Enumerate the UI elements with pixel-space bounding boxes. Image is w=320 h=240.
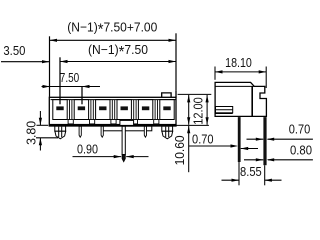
extension line 3.80 top bbox=[37, 124, 49, 126]
left peg bbox=[55, 126, 66, 139]
svg-text:8.55: 8.55 bbox=[240, 164, 262, 179]
dim line 3.80 lower bbox=[39, 138, 41, 151]
dim line (N-1)*7.50 bbox=[60, 61, 176, 63]
dim 12.00 right arrow line bbox=[206, 95, 208, 125]
svg-text:18.10: 18.10 bbox=[225, 55, 252, 70]
side right pin bbox=[263, 117, 266, 165]
dim 12.00 left arrow line bbox=[188, 95, 190, 125]
svg-text:0.90: 0.90 bbox=[77, 141, 98, 156]
extension line left pin bbox=[238, 162, 240, 185]
side left pin bbox=[238, 117, 241, 162]
svg-text:10.60: 10.60 bbox=[172, 135, 187, 165]
leader line 3.50 bbox=[1, 61, 50, 63]
extension line 18.10 right bbox=[265, 67, 267, 89]
window feet bbox=[68, 120, 159, 124]
center block under body bbox=[102, 126, 152, 131]
extension line body top right bbox=[178, 93, 212, 95]
short pin 3 bbox=[101, 126, 103, 137]
dim line (N-1)*7.50+7.00 bbox=[50, 39, 177, 41]
dim line 10.60 bbox=[188, 126, 190, 172]
right peg bbox=[162, 126, 173, 139]
dim line 0.70 front bbox=[189, 145, 237, 147]
dim line 0.80 bbox=[268, 159, 313, 161]
extension line right pin bbox=[264, 165, 266, 185]
dim line 8.55 bbox=[222, 179, 240, 181]
svg-text:12.00: 12.00 bbox=[191, 97, 206, 125]
extension line second contact bbox=[81, 87, 83, 105]
short pin 2 bbox=[79, 126, 81, 137]
side top inner line bbox=[215, 85, 254, 87]
center key rect bbox=[120, 120, 134, 125]
extension line body bottom right bbox=[177, 124, 209, 126]
body top inner line bbox=[51, 99, 176, 101]
separator walls bbox=[70, 100, 158, 124]
svg-text:3.80: 3.80 bbox=[24, 121, 39, 145]
dim line 3.80 upper bbox=[39, 111, 41, 125]
dim line 0.90 bbox=[73, 156, 122, 158]
body bottom band bbox=[49, 124, 176, 126]
body outline front view bbox=[49, 97, 176, 126]
dim line 0.70 side bbox=[268, 138, 313, 140]
side drawer bbox=[216, 107, 233, 114]
svg-text:3.50: 3.50 bbox=[3, 43, 25, 58]
contact dashes bbox=[56, 106, 170, 110]
side body outline bbox=[215, 82, 266, 116]
svg-text:0.80: 0.80 bbox=[290, 143, 312, 158]
svg-text:7.50: 7.50 bbox=[60, 70, 80, 85]
side divider bbox=[251, 86, 253, 116]
extension line body right edge bbox=[175, 33, 177, 91]
svg-text:0.70: 0.70 bbox=[289, 122, 311, 137]
body right raised tab bbox=[162, 93, 171, 98]
dim line 7.50 bbox=[42, 86, 101, 88]
svg-text:0.70: 0.70 bbox=[192, 132, 214, 147]
long pin 4 bbox=[122, 126, 125, 154]
extension line first contact bbox=[59, 57, 61, 104]
extension line body left edge bbox=[49, 36, 51, 97]
dim line 18.10 bbox=[215, 71, 266, 73]
extension line 18.10 left bbox=[214, 67, 216, 80]
contact windows bbox=[53, 100, 174, 120]
short pin 5 bbox=[144, 126, 146, 137]
extension line 3.80 bottom (peg tip) bbox=[36, 137, 58, 139]
